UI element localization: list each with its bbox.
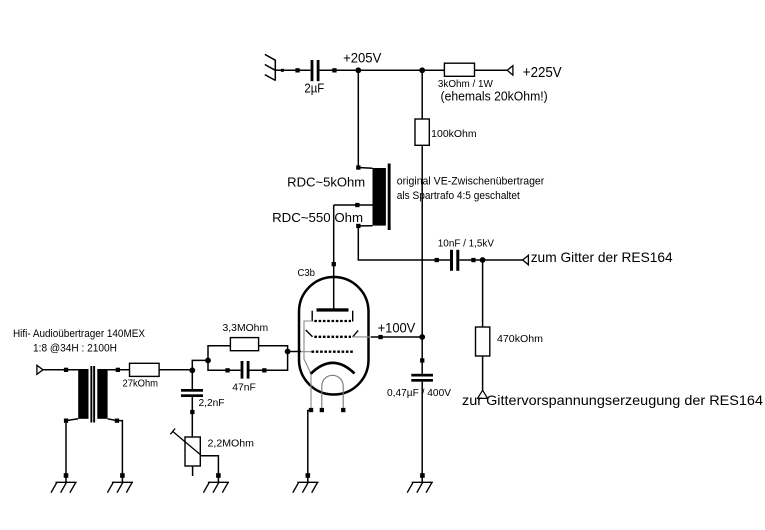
pin mark anode	[332, 262, 336, 266]
middle tap wire	[334, 204, 373, 206]
heater	[322, 375, 343, 410]
pin marks	[309, 408, 313, 412]
grid lead wire gray inside tube (+100V side)	[353, 336, 371, 338]
node F	[285, 349, 291, 355]
svg-text:+225V: +225V	[523, 64, 562, 81]
pin mark	[420, 358, 424, 362]
wire tube cathode pin to ground	[308, 410, 311, 482]
resistor 470kOhm	[476, 327, 490, 356]
resistor 100kOhm	[415, 119, 429, 145]
svg-text:RDC~5kOhm: RDC~5kOhm	[287, 174, 365, 189]
svg-text:+100V: +100V	[378, 320, 416, 336]
resistor 3kOhm/1W	[444, 63, 474, 76]
pin mark	[120, 473, 125, 478]
wire node +100V down to capacitor 0,47uF	[421, 337, 423, 374]
wire wiper to ground	[201, 456, 219, 482]
grid3 dotted row	[312, 351, 354, 353]
wire node E up to resistor 3,3MOhm	[208, 346, 230, 361]
pin mark	[64, 473, 69, 478]
node D	[189, 367, 195, 373]
wire node C down to resistor 470kOhm	[482, 260, 484, 327]
input connector arrow	[37, 365, 43, 374]
wire capacitor 47nF to node F	[250, 352, 288, 371]
svg-text:2µF: 2µF	[304, 81, 324, 96]
cathode internal lead	[310, 374, 312, 410]
svg-text:Hifi- Audioübertrager 140MEX: Hifi- Audioübertrager 140MEX	[13, 328, 146, 340]
wire capacitor 10nF to node C	[459, 259, 482, 261]
connector arrow +225V	[507, 66, 513, 76]
pin mark	[471, 258, 475, 262]
svg-text:RDC~550 Ohm: RDC~550 Ohm	[272, 210, 363, 225]
wire resistor 3,3MOhm to node F	[259, 346, 288, 352]
screen grid side posts	[311, 311, 313, 322]
pin mark	[281, 69, 284, 72]
pin mark	[64, 419, 68, 423]
wire node +205V to node B	[358, 69, 422, 71]
potentiometer 2,2MOhm	[185, 437, 200, 466]
svg-text:27kOhm: 27kOhm	[123, 379, 159, 390]
capacitor 10nF/1.5kV	[450, 250, 453, 271]
svg-text:zur Gittervorspannungserzeugun: zur Gittervorspannungserzeugung der RES1…	[462, 392, 763, 408]
screen grid dotted row	[314, 320, 351, 322]
wire primary bottom to ground	[66, 419, 78, 482]
wire resistor 3kOhm to connector +225V	[475, 69, 508, 71]
svg-text:als Spartrafo 4:5 geschaltet: als Spartrafo 4:5 geschaltet	[397, 190, 520, 202]
wire node C to connector zum Gitter	[483, 259, 523, 261]
svg-text:2,2MOhm: 2,2MOhm	[208, 439, 255, 450]
bottom tap stub	[358, 225, 372, 227]
screen grid internal lead	[304, 321, 312, 374]
wire node +205V down to transformer top tap	[357, 70, 359, 167]
tube U1 C3b	[298, 268, 369, 412]
primary winding	[78, 369, 88, 419]
wire node B to resistor 3kOhm	[422, 69, 444, 71]
svg-text:(ehemals 20kOhm!): (ehemals 20kOhm!)	[441, 88, 548, 103]
ground G5	[407, 482, 433, 492]
ground G1	[51, 482, 77, 492]
svg-text:47nF: 47nF	[232, 382, 256, 393]
transformer T2 Audiouebertrager 140MEX	[78, 366, 107, 423]
svg-text:100kOhm: 100kOhm	[431, 129, 476, 140]
node E	[205, 358, 211, 364]
wiper arrow tail tick	[170, 429, 175, 435]
connector arrow zum Gitter der RES164	[523, 255, 529, 264]
wiper arrow	[173, 432, 201, 456]
control grid dotted row	[314, 336, 351, 338]
wire tube to node +100V	[371, 336, 422, 338]
svg-text:+205V: +205V	[343, 49, 382, 65]
anode bar	[317, 308, 349, 311]
arrow to Gittervorspannungserzeugung	[478, 390, 488, 398]
wire capacitor 2,2nF to potentiometer	[191, 397, 193, 437]
wire secondary bottom to ground	[108, 419, 123, 482]
capacitor 47nF	[241, 361, 244, 379]
wire resistor 470kOhm down to arrow	[482, 356, 484, 390]
potentiometer bottom stub	[192, 466, 194, 476]
core bar	[388, 164, 391, 231]
ground G4	[293, 482, 319, 492]
pin mark	[225, 368, 229, 372]
pin mark	[216, 473, 221, 478]
svg-text:original VE-Zwischenübertrager: original VE-Zwischenübertrager	[397, 176, 545, 188]
node B	[419, 67, 425, 73]
wire bottom tap down and right to capacitor 10nF	[358, 226, 450, 260]
transformer T1 VE-Zwischenuebertrager	[334, 164, 391, 231]
wire resistor 100kOhm down to node +100V	[421, 145, 423, 337]
node C	[480, 257, 486, 263]
resistor 3,3MOhm	[230, 338, 258, 351]
svg-text:1:8 @34H : 2100H: 1:8 @34H : 2100H	[33, 342, 117, 354]
pin mark	[190, 410, 194, 414]
core bars	[90, 366, 92, 423]
svg-text:10nF / 1,5kV: 10nF / 1,5kV	[438, 239, 495, 250]
ground G3	[203, 482, 229, 492]
envelope	[299, 277, 369, 395]
pin mark	[420, 473, 425, 478]
pin mark	[295, 68, 299, 72]
capacitor 0,47uF/400V	[411, 374, 433, 377]
node +100V	[419, 334, 425, 340]
wire middle tap down to tube anode	[333, 205, 335, 309]
top tap stub	[358, 167, 372, 170]
cathode arc	[311, 363, 355, 374]
svg-text:0,47µF / 400V: 0,47µF / 400V	[387, 388, 451, 399]
pin mark	[378, 335, 382, 339]
ground G2	[107, 482, 133, 492]
gray grid lead through envelope	[301, 351, 312, 353]
svg-text:470kOhm: 470kOhm	[497, 334, 543, 345]
svg-text:zum Gitter der RES164: zum Gitter der RES164	[531, 249, 673, 265]
capacitor C 2uF	[311, 60, 314, 81]
control grid diagonals	[306, 330, 313, 337]
svg-text:2,2nF: 2,2nF	[199, 398, 225, 409]
pin mark	[115, 419, 119, 423]
pin mark	[116, 368, 120, 372]
pin mark	[262, 368, 266, 372]
capacitor 2,2nF	[181, 389, 203, 392]
wire chassis to capacitor 2uF	[275, 69, 310, 71]
pin mark	[64, 368, 68, 372]
pin mark	[306, 473, 311, 478]
pin mark	[435, 258, 439, 262]
wire node B down to resistor 100kOhm	[421, 70, 423, 119]
wire secondary top to resistor 27kOhm	[108, 369, 130, 371]
pin mark	[332, 68, 336, 72]
wire resistor 27kOhm to node D	[159, 369, 192, 371]
svg-text:C3b: C3b	[298, 268, 316, 279]
wire input to transformer T2	[43, 369, 78, 371]
wire node D link to node E	[192, 360, 208, 370]
wire node F to tube grid	[288, 351, 301, 353]
node +205V	[355, 67, 361, 73]
wire node E down to capacitor 47nF	[208, 360, 241, 370]
winding	[373, 168, 386, 226]
wire node D down to capacitor 2,2nF	[191, 370, 193, 389]
resistor 27kOhm	[130, 363, 160, 376]
wire capacitor to node +205V	[320, 69, 356, 71]
wire capacitor 0,47uF down to ground	[421, 382, 423, 482]
svg-text:3,3MOhm: 3,3MOhm	[223, 323, 269, 334]
chassis connector (rotated ground, top left)	[265, 54, 276, 80]
secondary winding	[97, 369, 107, 419]
